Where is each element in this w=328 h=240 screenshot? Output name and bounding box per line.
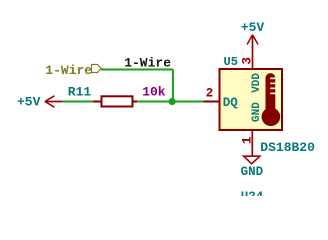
svg-text:VDD: VDD: [251, 73, 263, 93]
svg-text:U24: U24: [241, 190, 264, 196]
pin 1 (GND) of U5: [251, 130, 253, 156]
svg-text:1: 1: [239, 136, 254, 144]
svg-text:DQ: DQ: [223, 96, 239, 110]
ground symbol: [241, 156, 264, 179]
svg-text:DS18B20: DS18B20: [260, 140, 315, 155]
wire: +5V to resistor R11: [62, 101, 93, 103]
hierarchical label 1-Wire: [45, 63, 101, 78]
svg-text:1-Wire: 1-Wire: [45, 63, 92, 78]
svg-text:2: 2: [206, 87, 214, 101]
resistor R11: [93, 96, 137, 106]
svg-text:R11: R11: [68, 84, 92, 99]
thermometer icon: [262, 73, 281, 126]
svg-text:+5V: +5V: [241, 20, 265, 35]
pin 2 (DQ) of U5: [204, 101, 220, 103]
svg-text:GND: GND: [241, 165, 264, 179]
svg-text:+5V: +5V: [17, 94, 41, 109]
svg-text:1-Wire: 1-Wire: [124, 56, 171, 71]
pin 3 (VDD) of U5 + power symbol +5V (top): [247, 35, 258, 69]
svg-text:10k: 10k: [142, 84, 166, 99]
svg-text:3: 3: [240, 57, 255, 65]
svg-text:U5: U5: [224, 55, 238, 69]
wire: vertical from 1-Wire bus down to junction: [172, 70, 174, 102]
svg-text:GND: GND: [251, 102, 263, 122]
junction: [169, 98, 176, 105]
power symbol +5V (left): [17, 94, 62, 109]
wire: 1-Wire horizontal: [101, 69, 173, 71]
sensor U5 DS18B20 body: [220, 69, 283, 130]
wire: resistor to DQ pin: [137, 101, 203, 103]
